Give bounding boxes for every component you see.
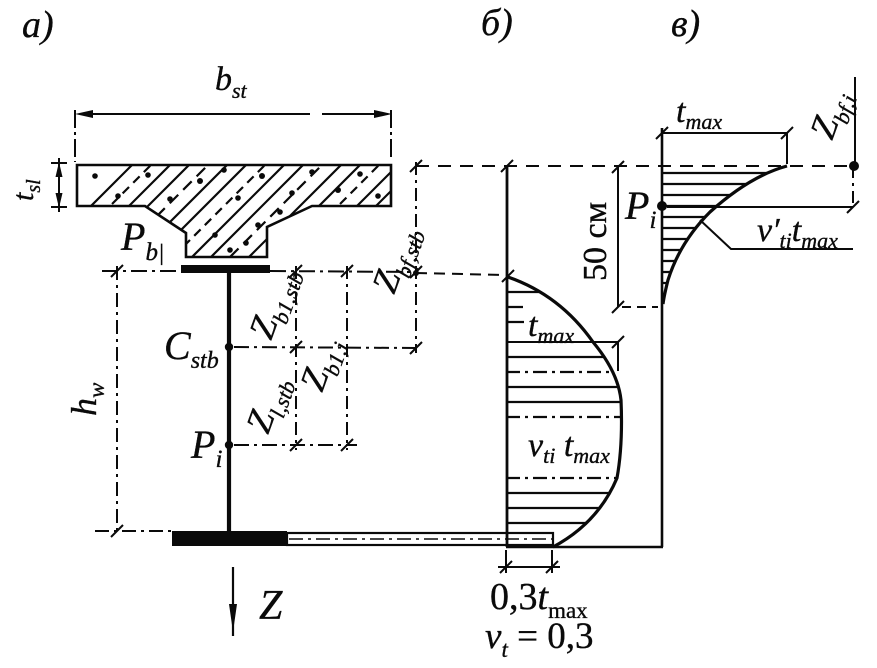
svg-text:tsl: tsl [7, 179, 45, 201]
svg-text:в): в) [671, 3, 700, 45]
svg-text:Zbf,i: Zbf,i [802, 84, 862, 146]
svg-text:v′titmax: v′titmax [757, 212, 838, 253]
dimension h_w [111, 265, 123, 537]
junction dot at Z_bf,stb top flange level [413, 270, 419, 276]
label v'_ti t_max (diagram v) [757, 212, 838, 253]
tick at diagram b baseline top [501, 160, 514, 282]
label 50 cm [577, 202, 614, 281]
Z axis arrow [229, 567, 237, 636]
dimension line Z_b1,stb / Z_l,stb (x=296) [290, 265, 302, 451]
label h_w [64, 382, 109, 416]
dimension t_max (diagram b) [507, 336, 624, 371]
label 0,3 t_max [490, 576, 588, 623]
node P_i dot [225, 441, 233, 449]
svg-text:bst: bst [215, 61, 248, 103]
label t_max (diagram v) [676, 93, 722, 134]
concrete aggregate dots [92, 167, 381, 253]
dimension Z_bf,i [852, 166, 854, 207]
diagram v hatching [662, 173, 800, 294]
top flange level line (left part) [102, 270, 181, 272]
node C_stb dot [225, 343, 233, 351]
bottom flange level line [95, 530, 176, 532]
node P_i dot (diagram v) [657, 201, 667, 211]
diagram v baseline [661, 128, 664, 547]
label P_b1 [120, 214, 164, 266]
dimension 50 cm [612, 161, 658, 313]
label P_i [190, 422, 222, 473]
svg-text:vti tmax: vti tmax [528, 427, 610, 468]
dimension t_max (diagram v) [656, 127, 793, 164]
svg-text:Zl,stb: Zl,stb [238, 370, 301, 440]
dimension line Z_b1,i (x=347) [341, 265, 353, 451]
dimension b_st [75, 110, 392, 162]
svg-text:Zbf,stb: Zbf,stb [364, 220, 431, 300]
steel bottom flange (black) [172, 531, 287, 546]
concrete slab outline [77, 165, 391, 257]
label v_t = 0,3 [485, 616, 593, 662]
label C_stb [164, 323, 219, 374]
node dot Z_bf,i top [849, 161, 859, 171]
label v'_ti t_max (diagram v) leader [700, 220, 853, 249]
svg-text:Pb|: Pb| [120, 214, 164, 266]
label Z_bf,i [802, 84, 862, 146]
label Z_l,stb [238, 370, 301, 440]
diagram b baseline [506, 166, 509, 547]
svg-text:Z: Z [259, 583, 283, 629]
label v) [671, 3, 700, 45]
svg-text:Zb1,stb: Zb1,stb [241, 261, 309, 346]
label Z_bf,stb [364, 220, 431, 300]
C_stb level line [234, 347, 416, 348]
diagram v temperature curve [663, 166, 787, 304]
svg-text:б): б) [481, 2, 513, 44]
svg-text:tmax: tmax [676, 93, 722, 134]
svg-text:50 см: 50 см [577, 202, 614, 281]
label t_sl [7, 179, 45, 201]
top flange level line (right part) [270, 271, 506, 275]
label Z_b1,i [292, 332, 354, 398]
svg-text:vt = 0,3: vt = 0,3 [485, 616, 593, 662]
svg-text:Pi: Pi [624, 183, 656, 234]
diagram b hatching [506, 292, 640, 523]
dimension t_sl [51, 158, 67, 212]
label Z_b1,stb [241, 261, 309, 346]
concrete slab hatching [40, 165, 455, 257]
steel top flange [181, 265, 270, 273]
label Z axis [259, 583, 283, 629]
label t_max (diagram b) [528, 307, 574, 348]
dimension line Z_bf,stb (x=416) [410, 160, 422, 354]
label b) [481, 2, 513, 44]
bottom connecting line [506, 546, 663, 549]
slab top level dashed line to diagrams b and v [416, 165, 855, 167]
svg-text:Pi: Pi [190, 422, 222, 473]
svg-text:а): а) [22, 4, 54, 46]
P_i level line [234, 444, 357, 446]
diagram b temperature curve [508, 277, 622, 547]
label P_i (diagram v) [624, 183, 656, 234]
P_i level line (diagram v) [667, 201, 859, 213]
dimension 0,3 t_max [498, 550, 560, 573]
label a) [22, 4, 54, 46]
extension line Z_bf,i upper [854, 77, 856, 163]
label b_st [215, 61, 248, 103]
svg-text:hw: hw [64, 382, 109, 416]
label v_ti t_max (diagram b) [528, 427, 610, 468]
steel web [227, 273, 231, 532]
svg-text:Cstb: Cstb [164, 323, 219, 374]
bottom flange plate (open bar) [262, 533, 557, 545]
